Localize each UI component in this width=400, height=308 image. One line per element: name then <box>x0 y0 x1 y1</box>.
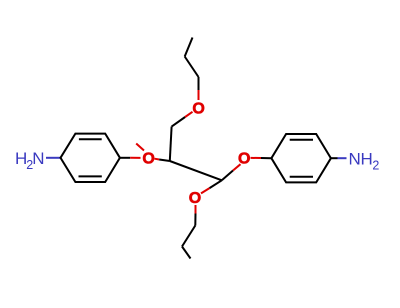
bond Cc to bottom O (red half) <box>201 188 210 193</box>
bond right ring to NH2 (blue half) <box>338 157 347 159</box>
right benzene ring <box>271 134 331 182</box>
bond bottom O down to C1' (black half) <box>194 214 196 226</box>
right ring double bond bottom <box>290 176 313 178</box>
bond left ring to O (red half) <box>130 157 140 159</box>
bond right O to right ring (red half) <box>251 157 262 159</box>
bond Cc to bottom O (black half) <box>210 180 222 188</box>
bond left ring to O (black half) <box>120 157 130 159</box>
bond top O up to C1 (black half) <box>198 77 200 90</box>
bond top O up to C1 (red half) <box>198 90 200 100</box>
bond H2N to left ring (blue) <box>46 157 61 159</box>
bond Ca to top O (red half) <box>185 112 192 117</box>
bond Cc to right O (red half) <box>233 164 241 170</box>
svg-text:H: H <box>361 149 373 168</box>
bond C2 to C3 top chain <box>185 38 193 57</box>
svg-text:O: O <box>189 190 201 207</box>
bond C2' to C3' bottom chain <box>182 247 191 259</box>
bond bottom O down to C1' (red half) <box>195 205 197 214</box>
svg-text:N: N <box>32 149 44 168</box>
bond left O to Cb (black half) <box>159 160 170 162</box>
bond right ring to NH2 (black half) <box>331 157 338 159</box>
bond Cc to right O (black half) <box>222 171 233 181</box>
svg-text:O: O <box>142 150 154 167</box>
stray red diagonal mark above-left of left O <box>136 144 144 151</box>
left ring double bond bottom <box>79 175 102 177</box>
bond C1' to C2' bottom chain <box>182 226 195 247</box>
bond Cb to Ca <box>170 127 172 161</box>
left ring double bond top <box>79 138 102 140</box>
svg-text:O: O <box>192 101 204 118</box>
bond right O to right ring (black half) <box>261 157 271 159</box>
bond C1 to C2 top chain <box>185 57 199 78</box>
bond Cb to Cc <box>170 161 222 180</box>
left benzene ring <box>61 134 120 182</box>
bond Ca to top O (black half) <box>172 117 186 127</box>
svg-text:N: N <box>349 149 361 168</box>
svg-text:O: O <box>238 150 250 167</box>
bond left O to Cb (red half) <box>155 158 160 161</box>
svg-text:2: 2 <box>372 159 379 173</box>
right ring double bond top <box>290 139 313 141</box>
